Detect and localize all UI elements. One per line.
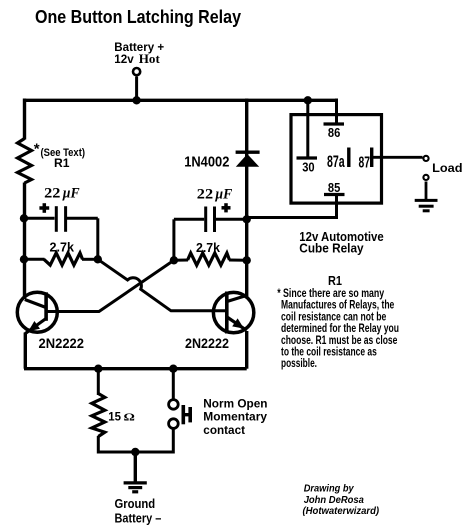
svg-text:Momentary: Momentary (203, 410, 267, 424)
svg-text:Norm Open: Norm Open (203, 396, 267, 410)
relay pin 87 (370, 148, 373, 168)
svg-text:85: 85 (328, 180, 341, 195)
svg-text:12v: 12v (114, 54, 134, 66)
svg-text:Cube Relay: Cube Relay (299, 241, 364, 256)
wire mid vertical (245, 99, 248, 299)
wire relay pin30 lead (306, 100, 309, 158)
transistor Q1 (17, 292, 57, 333)
wire C2 left branch (172, 219, 175, 260)
svg-text:2N2222: 2N2222 (39, 336, 85, 351)
capacitor C2 (174, 207, 247, 233)
label Battery + 12v Hot (114, 42, 164, 66)
transistor Q2 (213, 292, 253, 334)
wire Q2 emitter down (245, 331, 248, 369)
svg-text:(Hotwaterwizard): (Hotwaterwizard) (303, 506, 380, 517)
label R1 note (277, 273, 399, 370)
switch S1 terminal top (169, 400, 179, 410)
svg-text:µF: µF (62, 185, 80, 201)
svg-text:Drawing by: Drawing by (304, 484, 355, 495)
load terminal upper (423, 156, 428, 161)
svg-text:John DeRosa: John DeRosa (304, 495, 364, 506)
svg-text:Battery –: Battery – (115, 510, 162, 525)
svg-text:22: 22 (197, 186, 213, 202)
node R3 right (243, 256, 251, 264)
relay box (291, 115, 382, 204)
label C1 22uF (39, 185, 80, 212)
wire cross coupling D2 (45, 260, 174, 311)
wire C1 right branch (96, 218, 99, 259)
svg-text:Load: Load (432, 161, 462, 175)
svg-text:Hot: Hot (139, 52, 161, 66)
wire 15ohm lead bottom (98, 436, 173, 452)
node ground junction (131, 448, 139, 456)
svg-text:2.7k: 2.7k (196, 240, 221, 255)
svg-text:Ground: Ground (115, 497, 156, 511)
label 12v Automotive Cube Relay (299, 229, 383, 256)
label Ground Battery - (115, 497, 162, 525)
wire ground stem (134, 452, 137, 482)
svg-text:2.7k: 2.7k (50, 239, 75, 254)
load terminal lower (423, 175, 428, 180)
node R2 left (20, 255, 28, 263)
resistor R2 2.7k (24, 253, 98, 265)
node diode bottom (243, 215, 251, 223)
switch S1 actuator (183, 405, 190, 424)
svg-text:2N2222: 2N2222 (185, 336, 229, 351)
svg-text:22: 22 (44, 185, 60, 201)
svg-text:87: 87 (359, 155, 371, 172)
node R2 right (94, 255, 102, 263)
wire left rail upper (23, 99, 26, 140)
svg-text:87a: 87a (327, 153, 345, 171)
node button top (169, 365, 177, 373)
node battery junction (132, 96, 140, 104)
label R1 (34, 141, 85, 171)
ground battery (124, 483, 147, 492)
svg-text:R1: R1 (54, 156, 70, 170)
wire left rail mid (23, 183, 26, 300)
svg-text:1N4002: 1N4002 (184, 154, 229, 171)
svg-text:15: 15 (108, 410, 121, 424)
wire relay pin86 lead (335, 99, 338, 125)
resistor R1 (18, 139, 32, 184)
wire pin85 lead (247, 195, 337, 218)
svg-text:contact: contact (203, 423, 245, 437)
label 15 ohm (108, 410, 135, 424)
diode D1 1N4002 (236, 152, 260, 167)
relay pin 85 (324, 193, 345, 196)
resistor 15 ohm (92, 394, 105, 437)
resistor R3 2.7k (174, 253, 247, 265)
wire top rail (24, 99, 337, 102)
wire button lead top (172, 369, 175, 400)
svg-text:R1: R1 (328, 273, 342, 288)
battery terminal (133, 68, 140, 75)
svg-text:86: 86 (328, 125, 340, 140)
relay pin 87a (347, 148, 350, 168)
wire button lead bottom (172, 428, 175, 454)
wire Q1 emitter down (24, 333, 27, 369)
node relay-30 junction (304, 96, 312, 104)
label switch (203, 396, 267, 437)
node R3 left (170, 256, 178, 264)
wire bottom rail (24, 367, 247, 370)
wire battery stem (135, 77, 138, 101)
svg-text:µF: µF (214, 186, 232, 202)
node 15ohm top (94, 365, 102, 373)
wire pin87 to load (372, 156, 423, 159)
wire cross coupling D1 with hop (98, 259, 227, 311)
label credits (303, 484, 380, 517)
svg-text:30: 30 (302, 159, 314, 174)
wire load ground stem (425, 182, 428, 201)
svg-text:possible.: possible. (281, 357, 317, 370)
relay pin 30 (297, 156, 318, 159)
node C1 left (20, 214, 28, 222)
wire 15ohm lead top (97, 369, 100, 395)
capacitor C1 (24, 206, 98, 232)
label C2 22uF (197, 186, 233, 212)
switch S1 terminal bottom (169, 419, 179, 429)
svg-text:*: * (34, 141, 40, 158)
svg-text:Ω: Ω (124, 413, 135, 424)
svg-text:One Button Latching Relay: One Button Latching Relay (35, 7, 241, 27)
ground load (415, 200, 438, 210)
relay pin 86 (324, 122, 345, 125)
